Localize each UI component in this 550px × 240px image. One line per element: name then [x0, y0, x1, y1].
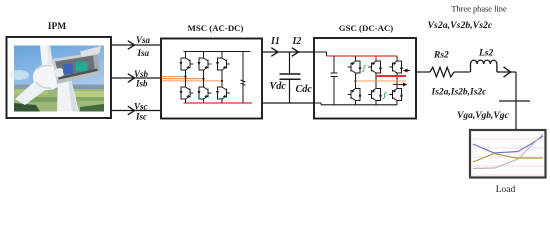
GSC top DC rail (red) — [327, 55, 398, 57]
photo nacelle front lip — [57, 71, 100, 85]
GSC bottom entry jog — [314, 103, 321, 105]
scope gridlines — [472, 139, 544, 175]
svg-text:IPM: IPM — [48, 22, 67, 32]
photo nacelle right wall — [93, 55, 100, 73]
photo wind turbine: sky — [14, 46, 104, 112]
igbt MSC Q1 — [180, 56, 194, 72]
igbt GSC Q2 — [389, 87, 403, 103]
scope trace blue — [473, 136, 543, 153]
wire DC link bottom — [262, 102, 314, 104]
photo cloud — [9, 70, 29, 80]
igbt GSC Q1 — [348, 59, 362, 75]
svg-text:I2: I2 — [292, 36, 302, 47]
wire GSC output to resistor — [416, 71, 430, 73]
scope trace grey — [473, 134, 543, 169]
block IPM box — [7, 37, 112, 118]
photo nacelle machinery: teal unit — [76, 62, 88, 72]
photo nacelle floor — [58, 69, 98, 81]
GSC leg 1 — [355, 56, 357, 105]
node three-phase bar — [499, 100, 530, 102]
photo horizon band — [14, 85, 104, 90]
svg-text:Vs2a,Vs2b,Vs2c: Vs2a,Vs2b,Vs2c — [428, 20, 493, 31]
svg-text:GSC (DC-AC): GSC (DC-AC) — [339, 23, 394, 33]
MSC top DC rail — [184, 51, 251, 53]
svg-text:Isc: Isc — [135, 112, 147, 122]
GSC phase out dark red with arrow — [393, 84, 404, 86]
photo blade up — [40, 46, 54, 76]
arrow I2 — [292, 48, 299, 57]
svg-text:Vsc: Vsc — [134, 102, 148, 112]
svg-text:Load: Load — [496, 185, 516, 195]
photo blade down-left — [15, 72, 57, 105]
igbt GSC Q5 — [389, 59, 403, 75]
wire Vsa phase a with arrow — [111, 44, 161, 46]
svg-text:Is2a,Is2b,Is2c: Is2a,Is2b,Is2c — [431, 88, 488, 98]
capacitor Cdc — [289, 52, 291, 74]
GSC leg 2 (red upper stub) — [375, 56, 377, 60]
MSC bottom DC rail (red) — [184, 102, 253, 104]
igbt MSC Q5 — [216, 56, 230, 72]
igbt GSC Q4 — [348, 87, 362, 103]
svg-text:Vsa: Vsa — [136, 35, 151, 45]
MSC phase line a (orange) — [162, 76, 186, 78]
GSC leg 3 — [396, 56, 398, 105]
photo nacelle machinery: blue motor — [63, 64, 73, 74]
photo nacelle lid — [80, 46, 101, 57]
block GSC box — [314, 38, 416, 119]
photo dark trees bottom-left — [14, 103, 40, 112]
GSC phase out orange — [356, 80, 407, 82]
scope trace olive — [473, 154, 543, 163]
MSC leg 3 — [221, 52, 223, 104]
wire down to load — [515, 72, 517, 130]
GSC output marker arrow top — [403, 69, 408, 73]
svg-text:Isb: Isb — [135, 79, 148, 89]
svg-text:Vdc: Vdc — [270, 81, 287, 92]
MSC phase line b (orange) — [162, 78, 204, 80]
MSC phase line c (orange) — [162, 80, 223, 82]
wire Vsc phase c with arrow — [111, 110, 161, 112]
wire DC link top — [262, 51, 314, 53]
photo tower — [57, 79, 79, 112]
wire inductor to corner with arrow — [497, 71, 516, 73]
photo nacelle open housing — [52, 52, 100, 84]
svg-text:Isa: Isa — [137, 48, 150, 58]
svg-text:I1: I1 — [270, 36, 280, 47]
GSC gate signal marks (green) — [362, 65, 366, 71]
GSC bottom DC rail — [321, 104, 397, 106]
svg-text:Vsb: Vsb — [134, 69, 149, 79]
block MSC box — [161, 39, 262, 119]
igbt MSC Q2 — [216, 85, 230, 101]
photo hub — [33, 64, 63, 90]
wire Vsb phase b with arrow — [111, 77, 161, 79]
igbt MSC Q3 — [198, 56, 212, 72]
igbt GSC Q3 — [368, 59, 382, 75]
voltage sensor branch in MSC — [242, 52, 244, 104]
svg-text:Ls2: Ls2 — [478, 49, 494, 59]
photo nacelle machinery: generator white — [55, 68, 65, 77]
inductor Ls2 — [471, 60, 497, 72]
GSC phase out red (thick) — [376, 75, 406, 77]
svg-text:Vga,Vgb,Vgc: Vga,Vgb,Vgc — [457, 111, 510, 121]
GSC capacitor branch — [333, 56, 335, 73]
igbt MSC Q6 — [198, 85, 212, 101]
arrow I1 — [271, 48, 278, 57]
svg-text:Cdc: Cdc — [296, 84, 313, 95]
photo green fields — [14, 89, 104, 112]
svg-text:Rs2: Rs2 — [433, 51, 449, 61]
photo dark band bottom-right — [80, 104, 104, 112]
MSC leg 2 — [203, 52, 205, 104]
wire resistor to inductor — [454, 71, 470, 73]
block Load scope box — [470, 130, 546, 178]
igbt MSC Q4 — [180, 85, 194, 101]
MSC leg 1 — [185, 52, 187, 104]
resistor Rs2 — [430, 67, 454, 77]
igbt GSC Q6 — [368, 87, 382, 103]
GSC top entry jog — [314, 52, 327, 56]
svg-text:Three phase line: Three phase line — [451, 5, 507, 14]
svg-text:MSC (AC-DC): MSC (AC-DC) — [188, 23, 244, 33]
